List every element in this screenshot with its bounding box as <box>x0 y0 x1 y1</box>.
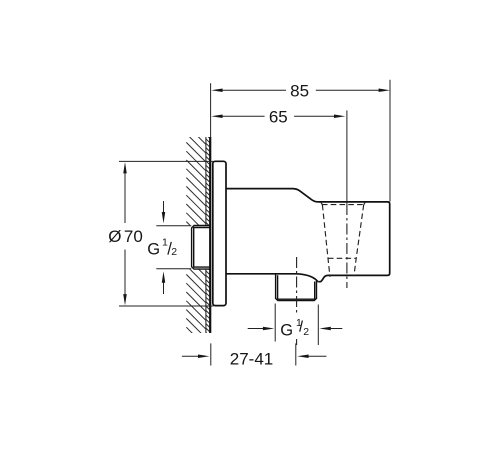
svg-text:G: G <box>280 321 293 339</box>
centerline cone <box>346 204 348 288</box>
svg-text:65: 65 <box>269 107 288 126</box>
wall hatching <box>186 116 209 347</box>
svg-text:G: G <box>147 240 160 258</box>
svg-text:2: 2 <box>171 246 177 258</box>
wall face line <box>209 137 211 333</box>
svg-text:Ø: Ø <box>108 227 121 246</box>
dimension 65 <box>222 110 347 204</box>
flange escutcheon <box>213 161 226 305</box>
inlet nipple <box>192 226 210 270</box>
holder cone hidden rim <box>321 202 365 205</box>
svg-text:85: 85 <box>290 81 309 100</box>
outlet nipple <box>276 274 317 301</box>
svg-text:1: 1 <box>162 237 168 249</box>
holder cone hidden sides <box>322 205 363 277</box>
svg-text:2: 2 <box>303 326 309 338</box>
dimension diameter 70 <box>119 161 214 306</box>
dimension 85 <box>211 80 390 202</box>
body outline bottom-left <box>226 274 319 282</box>
wall inner line <box>205 137 207 333</box>
dimension G 1/2 inlet <box>156 201 191 294</box>
body outline top <box>226 189 390 282</box>
svg-text:70: 70 <box>124 227 143 246</box>
svg-text:27-41: 27-41 <box>230 349 273 368</box>
dimension 27-41 <box>182 343 327 365</box>
centerline outlet <box>296 257 298 314</box>
dimension G 1/2 outlet <box>248 304 343 346</box>
